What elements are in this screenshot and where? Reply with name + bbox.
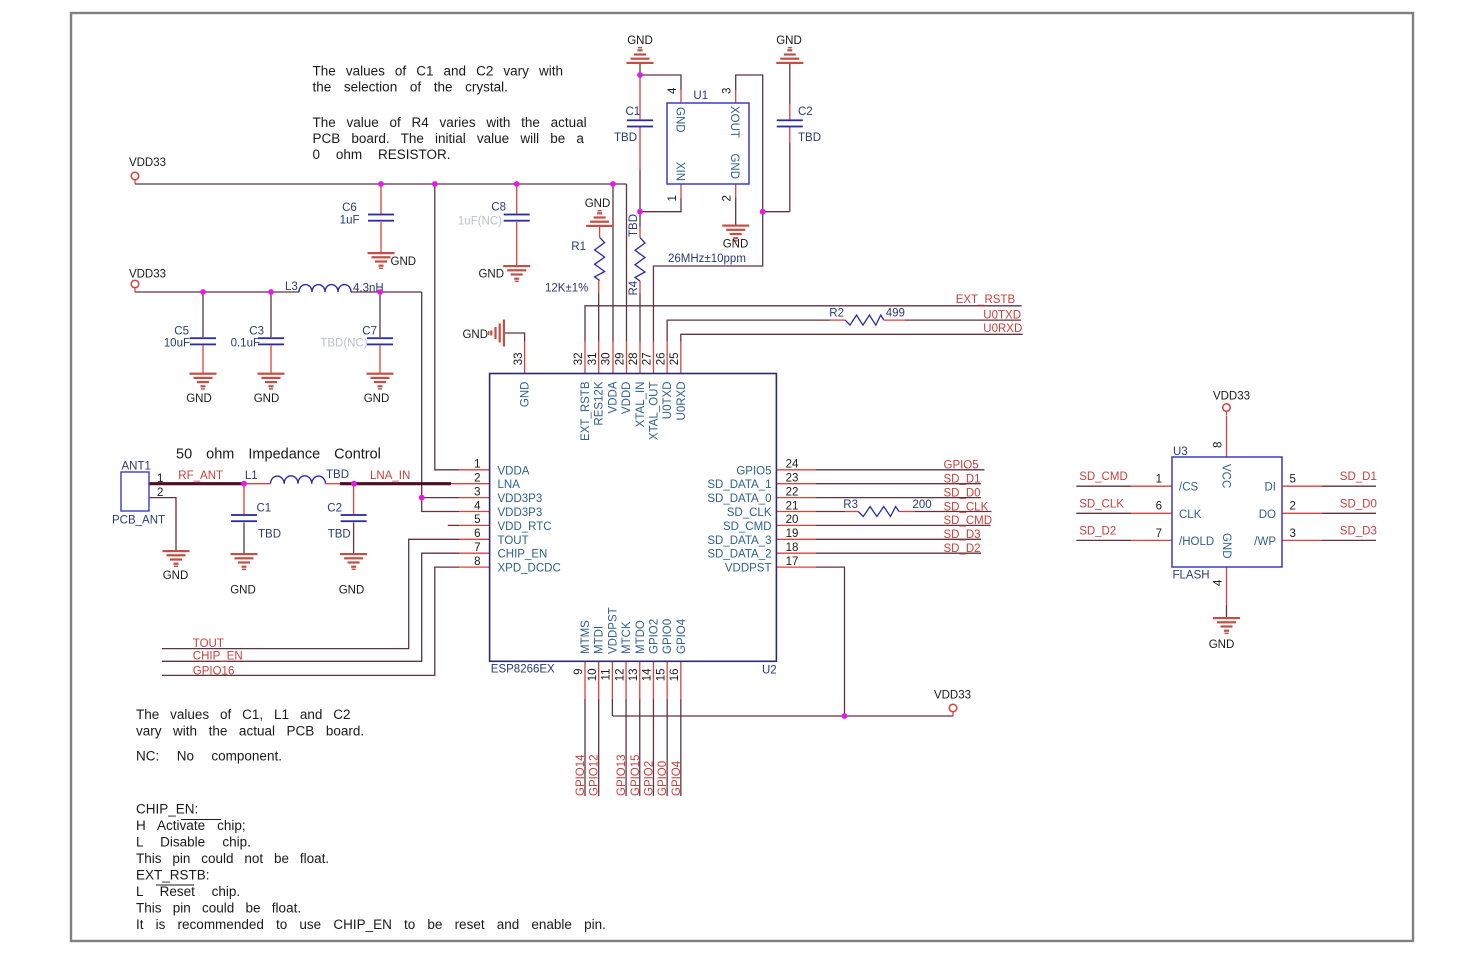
- svg-text:MTDI: MTDI: [594, 626, 606, 654]
- svg-text:3: 3: [474, 486, 480, 498]
- svg-text:30: 30: [601, 353, 613, 366]
- svg-text:GND: GND: [1209, 639, 1235, 651]
- svg-text:MTMS: MTMS: [580, 620, 592, 654]
- svg-text:C5: C5: [174, 326, 189, 338]
- svg-text:CHIP_EN: CHIP_EN: [193, 650, 243, 662]
- svg-text:2: 2: [722, 195, 734, 201]
- svg-text:CHIP_EN:: CHIP_EN:: [136, 802, 198, 817]
- svg-text:SD_D0: SD_D0: [1340, 498, 1377, 510]
- ground above crystal C2: [776, 47, 803, 64]
- svg-text:U0RXD: U0RXD: [983, 323, 1022, 335]
- wire pin24 GPIO5: [776, 469, 816, 471]
- overline on Activate: [181, 819, 221, 821]
- wire LNA_IN to pin2 LNA: [451, 483, 490, 485]
- svg-text:10uF: 10uF: [164, 338, 190, 350]
- svg-text:7: 7: [474, 542, 480, 554]
- wire pin32 EXT_RSTB: [584, 342, 586, 374]
- wire C1 ant leads: [243, 484, 245, 514]
- svg-text:GPIO5: GPIO5: [736, 465, 771, 477]
- svg-text:VDD_RTC: VDD_RTC: [498, 521, 552, 533]
- capacitor C3 0.1uF: [258, 337, 284, 345]
- wire row2 to pin3 pin4 VDD3P3: [422, 292, 459, 512]
- svg-text:12K±1%: 12K±1%: [545, 282, 588, 294]
- svg-text:GND: GND: [674, 107, 686, 133]
- inductor L3 4.3nH: [299, 285, 351, 292]
- svg-text:GND: GND: [627, 35, 653, 47]
- ground under C8: [503, 265, 530, 282]
- wire VDDPST row to VDD33 terminal: [613, 715, 953, 717]
- capacitor C7 TBD(NC): [367, 337, 393, 345]
- wire pin25 U0RXD: [680, 342, 682, 374]
- svg-text:12: 12: [614, 669, 626, 682]
- svg-text:VDD33: VDD33: [129, 269, 166, 281]
- svg-text:GPIO2: GPIO2: [648, 619, 660, 654]
- svg-text:5: 5: [474, 514, 480, 526]
- svg-text:14: 14: [642, 668, 654, 681]
- svg-text:4: 4: [474, 500, 481, 512]
- svg-text:/HOLD: /HOLD: [1179, 536, 1214, 548]
- svg-text:1: 1: [1156, 474, 1162, 486]
- wire R1 to GND: [599, 227, 601, 237]
- svg-text:21: 21: [786, 500, 799, 512]
- capacitor C1 crystal TBD: [627, 119, 653, 127]
- wire pin20 SD_CMD: [776, 524, 816, 526]
- power terminal VDD33 above U3: [1223, 404, 1231, 416]
- wire VDD33 to pin30 VDDA: [612, 184, 614, 342]
- svg-text:SD_DATA_1: SD_DATA_1: [707, 479, 771, 491]
- svg-text:1uF(NC): 1uF(NC): [458, 216, 502, 228]
- svg-text:TBD: TBD: [326, 469, 349, 481]
- ground under U1 pin2: [722, 225, 749, 242]
- junction row2/C7: [377, 289, 383, 295]
- svg-text:C2: C2: [327, 503, 342, 515]
- svg-text:SD_CMD: SD_CMD: [723, 521, 772, 533]
- svg-text:C1: C1: [626, 106, 641, 118]
- wire GPIO16 net to pin8 XPD_DCDC: [162, 567, 459, 675]
- wire U1 pin2 to GND: [735, 184, 737, 198]
- svg-text:LNA: LNA: [498, 479, 521, 491]
- wire XOUT node to pin27 XTAL_OUT: [652, 342, 654, 374]
- wire VDD33 row1: [135, 183, 627, 185]
- ground under C5: [190, 373, 217, 390]
- ground under C6: [368, 252, 395, 269]
- svg-text:VDD3P3: VDD3P3: [498, 493, 543, 505]
- ground under C3: [258, 373, 285, 390]
- wire U3 pin5 DI SD_D1: [1282, 485, 1322, 487]
- svg-text:SD_D3: SD_D3: [1340, 525, 1377, 537]
- svg-text:U3: U3: [1173, 446, 1188, 458]
- junction VDD33/pin1: [432, 181, 438, 187]
- svg-text:2: 2: [474, 473, 480, 485]
- svg-text:R2: R2: [829, 308, 844, 320]
- svg-text:SD_D0: SD_D0: [944, 487, 981, 499]
- svg-text:C7: C7: [362, 326, 377, 338]
- svg-text:L Disable chip.: L Disable chip.: [136, 835, 251, 850]
- svg-text:GPIO15: GPIO15: [630, 754, 642, 796]
- svg-text:XTAL_OUT: XTAL_OUT: [648, 382, 660, 441]
- svg-text:GPIO2: GPIO2: [643, 761, 655, 796]
- wire pin22 SD_DATA_0: [776, 497, 816, 499]
- svg-text:DO: DO: [1259, 509, 1276, 521]
- svg-text:TOUT: TOUT: [498, 535, 529, 547]
- svg-text:6: 6: [1156, 501, 1162, 513]
- junction LNA_IN/C2: [351, 481, 357, 487]
- svg-text:4: 4: [1213, 579, 1225, 586]
- svg-text:XIN: XIN: [674, 162, 686, 181]
- svg-text:9: 9: [573, 669, 585, 675]
- svg-text:29: 29: [614, 353, 626, 366]
- svg-text:VDD3P3: VDD3P3: [498, 507, 543, 519]
- svg-text:The value of R4 varies with th: The value of R4 varies with the actual: [313, 115, 587, 130]
- svg-text:VDDD: VDDD: [621, 382, 633, 415]
- wire C2 crystal top lead: [789, 64, 791, 104]
- capacitor C5 10uF: [190, 337, 216, 345]
- svg-text:TBD: TBD: [258, 529, 281, 541]
- svg-text:NC: No component.: NC: No component.: [136, 749, 282, 764]
- svg-text:499: 499: [886, 308, 905, 320]
- resistor R4 TBD: [635, 238, 645, 281]
- svg-text:SD_CLK: SD_CLK: [1079, 498, 1124, 510]
- wire LNA_IN thick: [340, 482, 451, 485]
- svg-text:SD_DATA_3: SD_DATA_3: [707, 535, 771, 547]
- power terminal VDD33 VDDPST net: [949, 704, 957, 716]
- svg-text:It is recommended to use CHIP_: It is recommended to use CHIP_EN to be r…: [136, 917, 606, 932]
- svg-text:17: 17: [786, 556, 799, 568]
- svg-text:The values of C1 and C2 vary w: The values of C1 and C2 vary with: [313, 64, 563, 79]
- svg-text:GPIO12: GPIO12: [589, 754, 601, 796]
- svg-text:GND: GND: [230, 585, 256, 597]
- svg-text:TBD: TBD: [614, 132, 637, 144]
- svg-text:GND: GND: [1220, 533, 1232, 559]
- svg-text:RF_ANT: RF_ANT: [178, 470, 223, 482]
- junction VDDPST/VDD33: [842, 713, 848, 719]
- svg-text:1: 1: [474, 459, 480, 471]
- svg-text:VDDA: VDDA: [607, 381, 619, 413]
- svg-text:GND: GND: [364, 393, 390, 405]
- capacitor C1 antenna TBD: [231, 514, 257, 522]
- junction pin3 VDD3P3: [419, 495, 425, 501]
- ground under ANT1: [163, 550, 190, 567]
- wire pin11 VDDPST down: [611, 661, 613, 699]
- svg-text:U0TXD: U0TXD: [983, 309, 1021, 321]
- wire CHIP_EN net: [162, 553, 459, 661]
- inductor L1: [270, 476, 325, 484]
- svg-text:GND: GND: [723, 239, 749, 251]
- svg-text:CLK: CLK: [1179, 509, 1202, 521]
- svg-text:0.1uF: 0.1uF: [231, 338, 260, 350]
- junction VDD33/C8: [514, 181, 520, 187]
- svg-text:L1: L1: [245, 470, 258, 482]
- wire pin33 GND: [505, 333, 525, 342]
- ground under C2 antenna: [340, 553, 367, 570]
- svg-text:27: 27: [642, 353, 654, 366]
- svg-text:EXT_RSTB:: EXT_RSTB:: [136, 868, 210, 883]
- power terminal VDD33 second: [131, 280, 139, 292]
- wire L1 left lead: [244, 483, 270, 485]
- wire C6 leads: [380, 184, 382, 214]
- ground under C1 antenna: [231, 553, 258, 570]
- power terminal VDD33 top-left: [131, 172, 139, 184]
- svg-text:10: 10: [587, 669, 599, 682]
- svg-text:GND: GND: [391, 256, 417, 268]
- svg-text:the selection of the crystal.: the selection of the crystal.: [313, 80, 508, 95]
- capacitor C6 1uF: [368, 214, 394, 222]
- svg-text:GND: GND: [254, 393, 280, 405]
- svg-text:VDDPST: VDDPST: [725, 563, 772, 575]
- wire L1 right lead: [326, 483, 341, 485]
- wire U3 pin3 /WP SD_D3: [1282, 539, 1322, 541]
- svg-text:5: 5: [1290, 474, 1296, 486]
- svg-text:R1: R1: [571, 241, 586, 253]
- wire pin12 MTCK down: [625, 661, 627, 699]
- wire U3 pin1 /CS SD_CMD: [1076, 485, 1131, 487]
- wire RF_ANT thick: [149, 482, 244, 485]
- junction VDD33/C6: [378, 181, 384, 187]
- svg-text:24: 24: [786, 459, 799, 471]
- svg-text:SD_D2: SD_D2: [944, 543, 981, 555]
- svg-text:TBD: TBD: [328, 529, 351, 541]
- svg-text:TBD(NC): TBD(NC): [320, 338, 367, 350]
- svg-text:U2: U2: [762, 665, 777, 677]
- wire C7 leads: [379, 292, 381, 337]
- wire U3 pin2 DO SD_D0: [1282, 512, 1322, 514]
- svg-text:GND: GND: [776, 35, 802, 47]
- wire R4 to pin28 XTAL_IN: [639, 281, 641, 293]
- svg-text:VDD33: VDD33: [1213, 391, 1250, 403]
- svg-text:GPIO4: GPIO4: [671, 760, 683, 796]
- wire pin13 MTDO down: [639, 661, 641, 699]
- junction VDD33/pin30: [610, 181, 616, 187]
- junction crystal GND: [637, 72, 643, 78]
- svg-text:VDDPST: VDDPST: [607, 607, 619, 654]
- svg-text:TOUT: TOUT: [193, 638, 224, 650]
- svg-text:FLASH: FLASH: [1173, 570, 1210, 582]
- svg-text:GND: GND: [339, 585, 365, 597]
- svg-text:TBD: TBD: [628, 214, 640, 237]
- wire VDD33 to pin1 VDDA: [435, 184, 459, 470]
- svg-text:SD_D1: SD_D1: [1340, 471, 1377, 483]
- svg-text:EXT_RSTB: EXT_RSTB: [580, 381, 592, 441]
- wire junction to pin3 VDD3P3: [422, 497, 459, 499]
- svg-text:ANT1: ANT1: [122, 461, 151, 473]
- svg-text:11: 11: [601, 669, 613, 681]
- svg-text:VCC: VCC: [1220, 464, 1232, 488]
- svg-text:L Reset chip.: L Reset chip.: [136, 884, 240, 899]
- wire C2 node to XOUT junction: [763, 211, 790, 213]
- svg-text:SD_CMD: SD_CMD: [1079, 471, 1128, 483]
- wire pin10 MTDI down: [598, 661, 600, 699]
- wire C8 leads: [516, 184, 518, 214]
- wire C5 leads: [202, 292, 204, 337]
- svg-text:ESP8266EX: ESP8266EX: [491, 664, 555, 676]
- svg-text:vary with the actual PCB board: vary with the actual PCB board.: [136, 724, 364, 739]
- wire C1 crystal top lead: [639, 75, 641, 119]
- svg-text:2: 2: [1290, 501, 1296, 513]
- svg-text:7: 7: [1156, 528, 1162, 540]
- svg-text:20: 20: [786, 514, 799, 526]
- svg-text:25: 25: [669, 353, 681, 366]
- svg-text:EXT_RSTB: EXT_RSTB: [956, 294, 1016, 306]
- svg-text:6: 6: [474, 528, 480, 540]
- wire C3 leads: [270, 292, 272, 337]
- wire crystal GND top to junction: [639, 64, 641, 75]
- svg-text:SD_DATA_2: SD_DATA_2: [707, 549, 771, 561]
- svg-text:/WP: /WP: [1254, 536, 1276, 548]
- svg-text:16: 16: [669, 669, 681, 682]
- junction row2/C5: [200, 289, 206, 295]
- svg-text:PCB_ANT: PCB_ANT: [112, 515, 165, 527]
- svg-text:H Activate chip;: H Activate chip;: [136, 818, 246, 833]
- wire C2 ant leads: [353, 484, 355, 514]
- svg-text:CHIP_EN: CHIP_EN: [498, 549, 548, 561]
- svg-text:GND: GND: [186, 393, 212, 405]
- svg-text:GND: GND: [585, 198, 611, 210]
- IC U3 FLASH box: [1172, 457, 1282, 567]
- svg-text:R4: R4: [628, 280, 640, 295]
- svg-text:SD_CMD: SD_CMD: [944, 515, 993, 527]
- wire C2 crystal bottom lead: [789, 127, 791, 143]
- wire pin23 SD_DATA_1: [776, 483, 816, 485]
- IC U2 ESP8266EX box: [490, 374, 777, 662]
- svg-text:GPIO5: GPIO5: [944, 460, 979, 472]
- svg-text:SD_CLK: SD_CLK: [944, 501, 989, 513]
- svg-text:GND: GND: [520, 382, 532, 408]
- wire XIN node to R4: [639, 212, 641, 227]
- capacitor C2 antenna TBD: [341, 514, 367, 522]
- svg-text:3: 3: [722, 88, 734, 94]
- svg-text:4: 4: [667, 87, 679, 94]
- wire pin5 VDD_RTC stub: [448, 524, 459, 526]
- svg-text:MTCK: MTCK: [621, 621, 633, 654]
- resistor R2 499: [845, 315, 884, 325]
- wire C1 crystal bottom lead: [639, 127, 641, 170]
- svg-text:GPIO13: GPIO13: [616, 754, 628, 796]
- svg-text:PCB board. The initial value w: PCB board. The initial value will be a: [313, 131, 585, 146]
- svg-text:L3: L3: [285, 281, 298, 293]
- svg-text:2: 2: [157, 487, 163, 499]
- wire U0TXD after R2: [884, 319, 905, 321]
- ground pin33 sideways: [488, 320, 505, 347]
- svg-text:/CS: /CS: [1179, 482, 1199, 494]
- svg-text:C2: C2: [798, 106, 813, 118]
- capacitor C8 1uF(NC): [504, 214, 530, 222]
- svg-text:26MHz±10ppm: 26MHz±10ppm: [668, 253, 746, 265]
- svg-text:26: 26: [655, 353, 667, 366]
- svg-text:VDD33: VDD33: [934, 690, 971, 702]
- svg-text:MTDO: MTDO: [635, 620, 647, 654]
- wire pin19 SD_DATA_3: [776, 538, 816, 540]
- ground above R1: [586, 210, 613, 227]
- wire U1 pin3 XOUT to C2 node: [735, 90, 737, 103]
- wire pin26 U0TXD: [666, 342, 668, 374]
- svg-text:SD_D3: SD_D3: [944, 529, 981, 541]
- svg-text:GND: GND: [728, 153, 740, 179]
- wire pin16 GPIO4 down: [680, 661, 682, 699]
- svg-text:XPD_DCDC: XPD_DCDC: [498, 563, 561, 575]
- svg-text:TBD: TBD: [798, 132, 821, 144]
- svg-text:15: 15: [655, 669, 667, 682]
- svg-text:8: 8: [474, 556, 480, 568]
- svg-text:0 ohm RESISTOR.: 0 ohm RESISTOR.: [313, 147, 451, 162]
- capacitor C2 crystal TBD: [777, 119, 803, 127]
- svg-text:R3: R3: [843, 499, 858, 511]
- svg-text:RES12K: RES12K: [594, 381, 606, 425]
- svg-text:50 ohm Impedance Control: 50 ohm Impedance Control: [176, 447, 381, 463]
- svg-text:VDDA: VDDA: [498, 465, 530, 477]
- svg-text:C8: C8: [491, 202, 506, 214]
- wire VDD33 to pin29 VDDD: [626, 184, 628, 342]
- junction XOUT node: [760, 209, 766, 215]
- svg-text:GPIO16: GPIO16: [193, 666, 235, 678]
- svg-text:23: 23: [786, 473, 799, 485]
- svg-text:SD_CLK: SD_CLK: [727, 507, 772, 519]
- svg-text:GPIO0: GPIO0: [657, 761, 669, 796]
- wire U3 pin4 GND: [1226, 567, 1228, 605]
- ground under C7: [367, 373, 394, 390]
- svg-text:GND: GND: [462, 329, 488, 341]
- svg-text:3: 3: [1290, 528, 1296, 540]
- svg-text:GND: GND: [163, 570, 189, 582]
- svg-text:C3: C3: [249, 326, 264, 338]
- crystal U1 box: [667, 103, 749, 184]
- svg-text:U0RXD: U0RXD: [676, 382, 688, 421]
- wire XIN node to U1 pin1: [640, 198, 681, 212]
- svg-text:28: 28: [628, 353, 640, 366]
- svg-text:XOUT: XOUT: [728, 106, 740, 138]
- svg-text:19: 19: [786, 528, 799, 540]
- svg-text:VDD33: VDD33: [129, 157, 166, 169]
- wire pin21 SD_CLK with R3: [776, 511, 816, 513]
- svg-text:U1: U1: [693, 90, 708, 102]
- svg-text:C6: C6: [342, 202, 357, 214]
- wire pin31 RES12K to R1: [598, 342, 600, 374]
- svg-text:U0TXD: U0TXD: [662, 382, 674, 420]
- svg-text:GND: GND: [478, 269, 504, 281]
- wire U3 pin7 /HOLD SD_D2: [1076, 539, 1131, 541]
- svg-text:DI: DI: [1265, 482, 1277, 494]
- svg-text:SD_D1: SD_D1: [944, 474, 981, 486]
- svg-text:LNA_IN: LNA_IN: [370, 470, 410, 482]
- antenna ANT1 PCB_ANT: [121, 472, 149, 511]
- wire TOUT net: [162, 539, 459, 648]
- svg-text:33: 33: [513, 353, 525, 366]
- wire ANT1 pin2 to GND: [149, 498, 176, 550]
- wire VDD33 row2: [135, 291, 299, 293]
- svg-text:8: 8: [1213, 442, 1225, 448]
- svg-text:200: 200: [913, 499, 932, 511]
- wire pin18 SD_DATA_2: [776, 552, 816, 554]
- svg-text:1: 1: [157, 473, 163, 485]
- svg-text:32: 32: [573, 353, 585, 366]
- svg-text:GPIO14: GPIO14: [575, 754, 587, 796]
- svg-text:XTAL_IN: XTAL_IN: [635, 382, 647, 428]
- junction RF_ANT/C1: [241, 481, 247, 487]
- wire U3 pin8 VCC to VDD33: [1226, 416, 1228, 457]
- svg-text:This pin could be float.: This pin could be float.: [136, 901, 301, 916]
- svg-text:C1: C1: [257, 503, 272, 515]
- svg-text:18: 18: [786, 542, 799, 554]
- junction row2/C3: [268, 289, 274, 295]
- svg-text:GPIO4: GPIO4: [676, 618, 688, 654]
- svg-text:1uF: 1uF: [340, 215, 360, 227]
- svg-text:SD_D2: SD_D2: [1079, 525, 1116, 537]
- svg-text:SD_DATA_0: SD_DATA_0: [707, 493, 771, 505]
- wire pin15 GPIO0 down: [666, 661, 668, 699]
- svg-text:13: 13: [628, 669, 640, 682]
- junction XIN node: [637, 209, 643, 215]
- resistor R1 12K 1%: [595, 237, 605, 280]
- wire GND junction to U1 pin4: [640, 75, 681, 90]
